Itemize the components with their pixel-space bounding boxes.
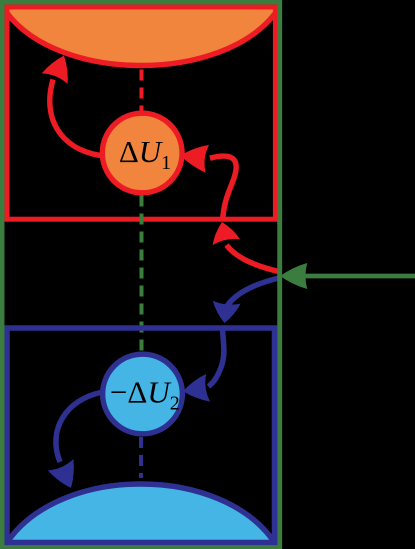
hot reservoir T1 (orange segment)	[7, 6, 275, 66]
red arrow: circle to hot reservoir	[50, 80, 101, 156]
circle Delta U1	[102, 113, 182, 193]
cold reservoir T2 (light blue segment)	[7, 484, 275, 544]
blue arrow: boundary into -Delta U2 circle	[209, 330, 224, 387]
red arrow: junction up to red box boundary	[227, 245, 282, 272]
green work input arrow	[303, 274, 415, 279]
circle -Delta U2	[103, 354, 183, 434]
blue arrow: junction down to blue box boundary	[227, 278, 281, 307]
cold reservoir arc border	[7, 484, 275, 543]
svg-text:−ΔU2: −ΔU2	[110, 375, 180, 415]
red dashed centerline	[140, 70, 144, 111]
hot reservoir arc border	[7, 13, 275, 66]
green boundary rectangle	[2, 2, 280, 548]
red arrow: boundary into Delta U1 circle	[210, 156, 236, 221]
green dashed centerline	[140, 196, 144, 352]
navy dashed centerline	[139, 437, 143, 478]
blue arrow: circle to cold reservoir	[56, 393, 101, 463]
red box (hot system boundary)	[7, 7, 275, 219]
blue box (cold system boundary)	[7, 328, 275, 543]
